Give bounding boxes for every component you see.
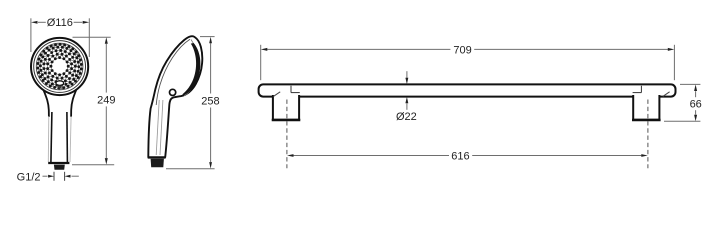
svg-text:616: 616 bbox=[451, 150, 469, 162]
svg-text:66: 66 bbox=[690, 99, 702, 111]
svg-text:258: 258 bbox=[201, 96, 219, 108]
svg-text:709: 709 bbox=[453, 45, 471, 57]
svg-text:Ø116: Ø116 bbox=[47, 17, 73, 29]
svg-text:249: 249 bbox=[97, 94, 115, 106]
svg-text:Ø22: Ø22 bbox=[396, 111, 417, 123]
svg-text:G1/2: G1/2 bbox=[17, 171, 41, 183]
